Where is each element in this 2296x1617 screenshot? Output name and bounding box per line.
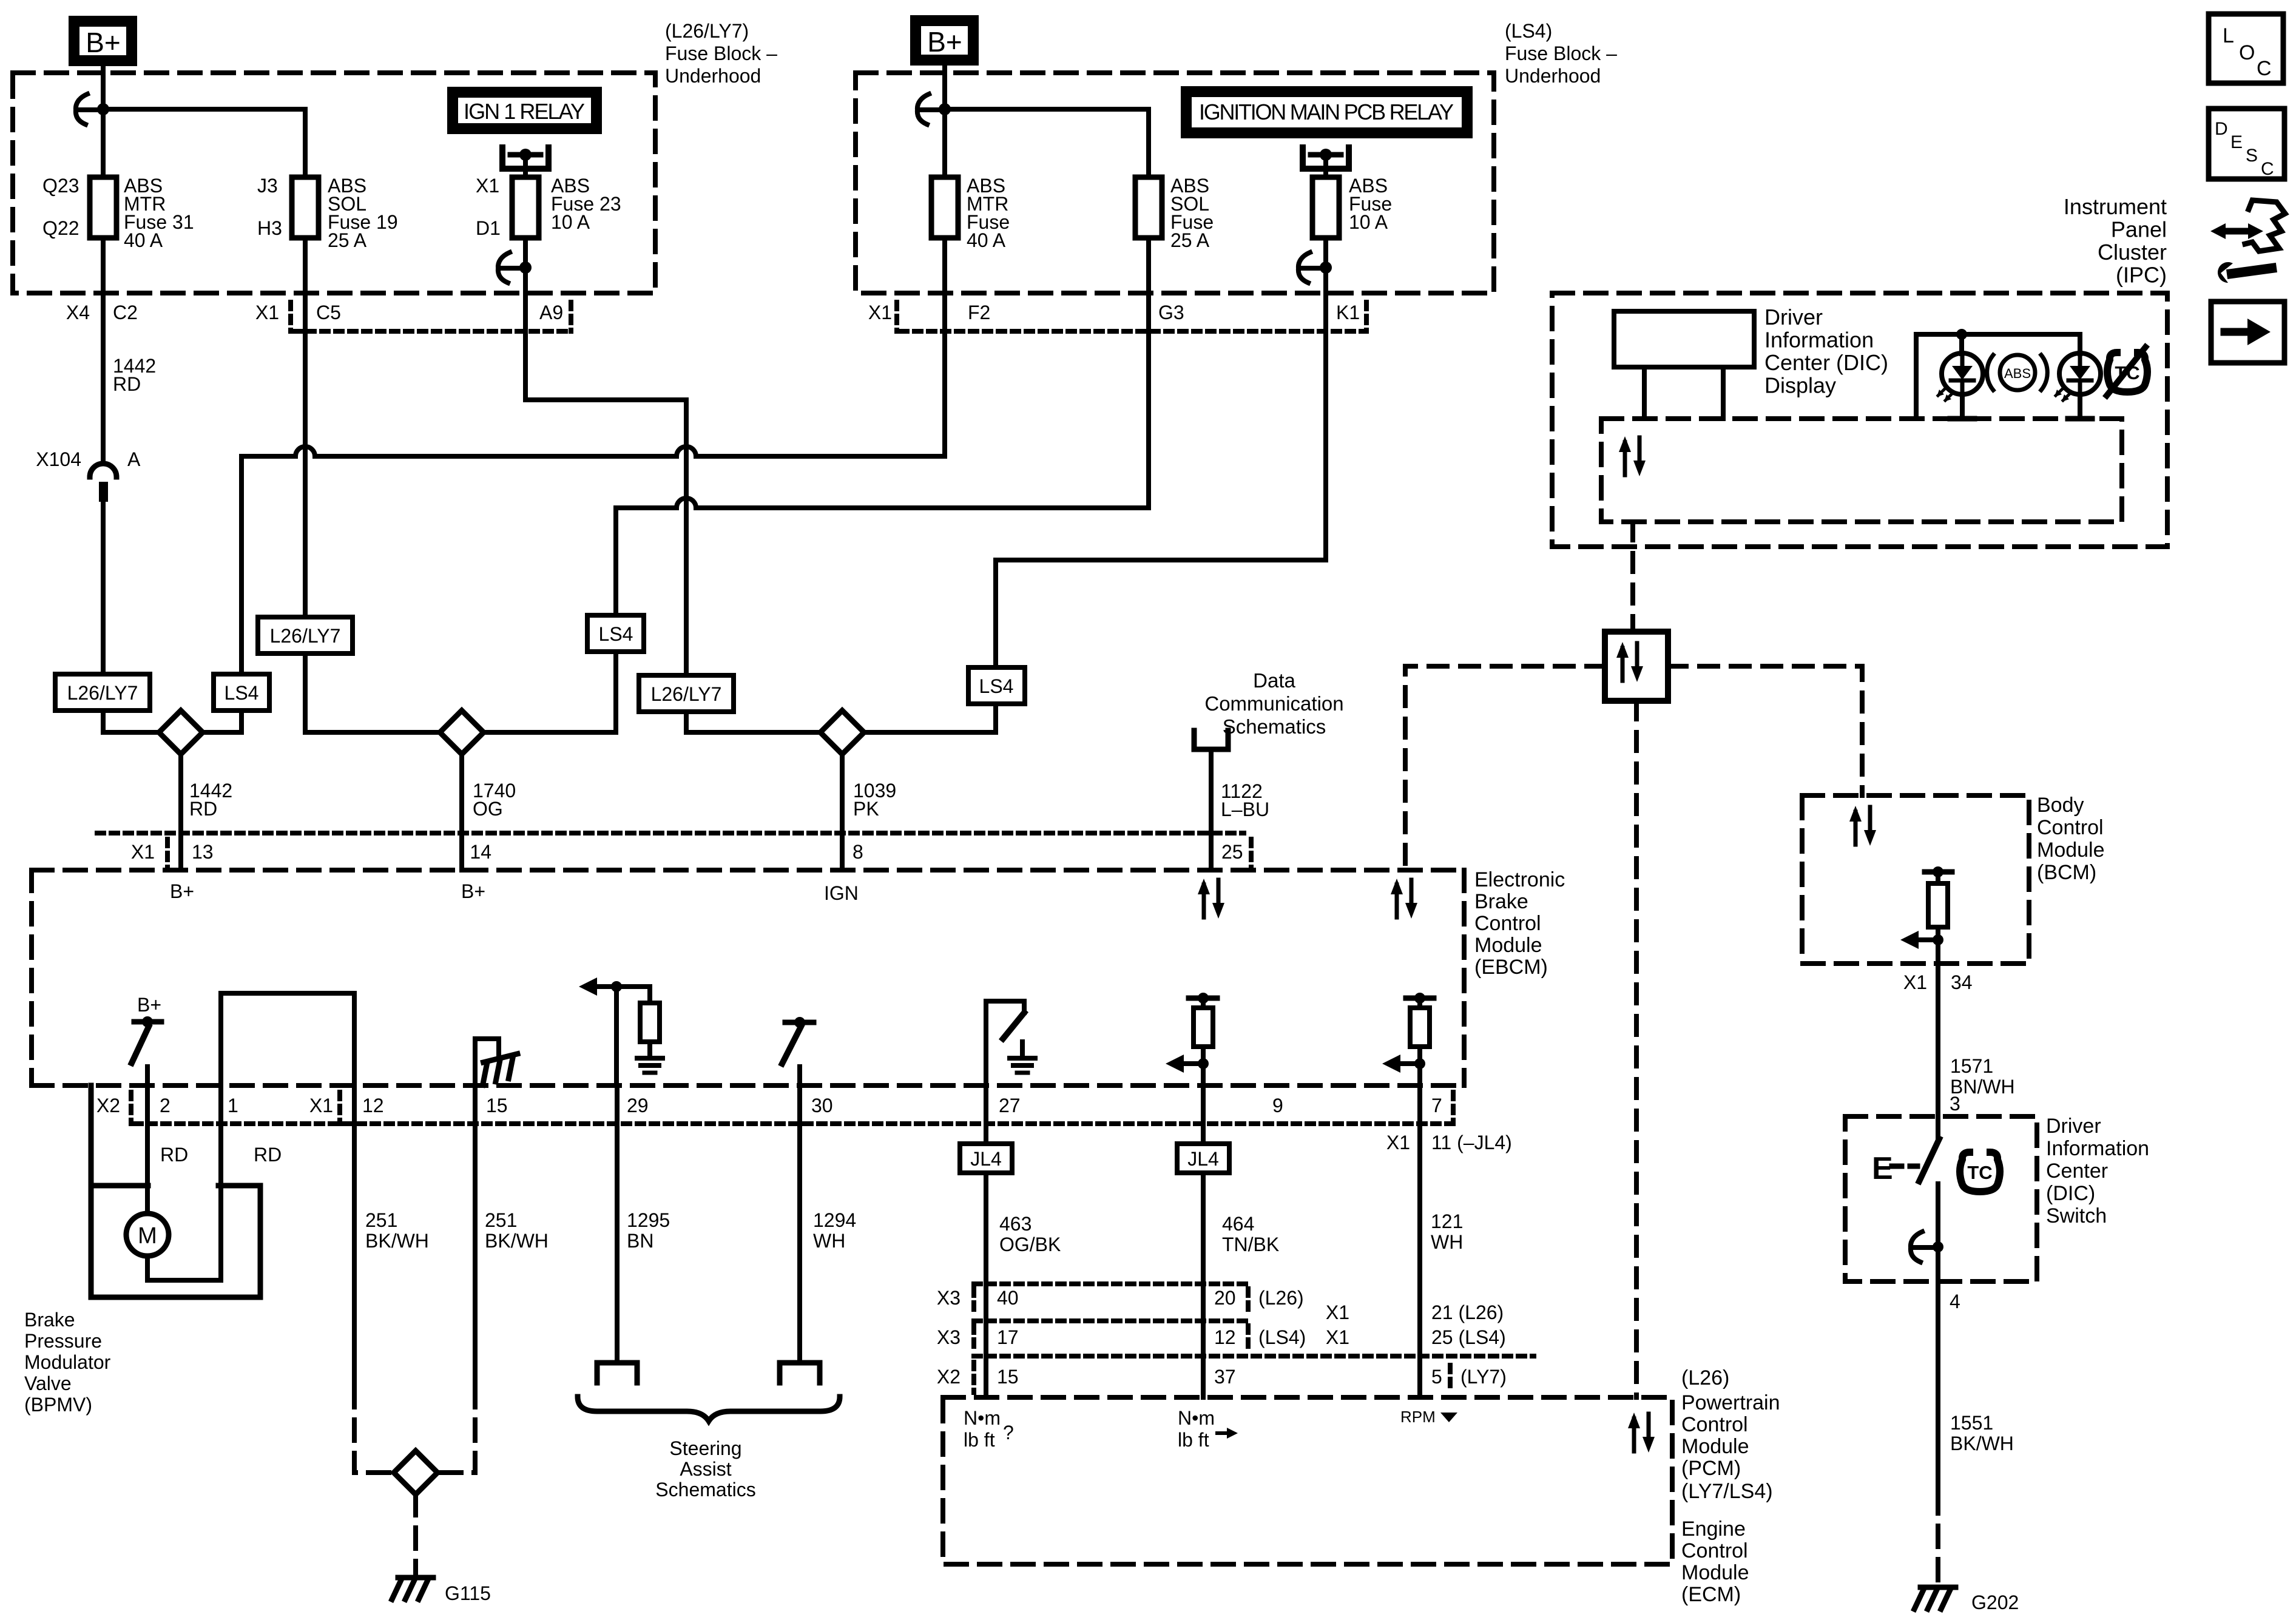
EBCM internal output pin 29 xyxy=(611,981,622,992)
svg-text:E: E xyxy=(2230,132,2243,152)
DIC inner dashed box xyxy=(1601,419,2122,522)
EBCM internal motor ground loop pin1 to pin12 xyxy=(221,993,354,1085)
wire down to LS4 tag 1 xyxy=(239,456,244,674)
svg-text:(BPMV): (BPMV) xyxy=(24,1394,92,1416)
EBCM bottom edge xyxy=(32,1083,1464,1088)
svg-text:Modulator: Modulator xyxy=(24,1351,111,1373)
indicator lamp bus xyxy=(1916,334,2080,419)
wire into splice diamond 2 right xyxy=(483,730,616,735)
svg-text:10 A: 10 A xyxy=(1349,211,1388,233)
svg-text:M: M xyxy=(138,1223,157,1249)
IGNITION MAIN PCB RELAY label box xyxy=(1181,86,1473,138)
relay IGNITION MAIN PCB contact output xyxy=(1303,147,1349,169)
fine dotted line above EBCM top pins xyxy=(97,831,1244,836)
svg-text:3: 3 xyxy=(1950,1093,1960,1115)
A9 ignition wire jog xyxy=(523,331,528,400)
svg-text:1: 1 xyxy=(228,1095,238,1116)
icon connector-view arrow with wrench xyxy=(2210,200,2285,283)
svg-text:Cluster: Cluster xyxy=(2098,240,2167,265)
BCM Body Control Module dashed box xyxy=(1802,795,2029,964)
B+ terminal box 1 xyxy=(69,16,137,66)
svg-text:15: 15 xyxy=(486,1095,508,1116)
svg-text:G202: G202 xyxy=(1971,1592,2019,1613)
svg-text:11 (–JL4): 11 (–JL4) xyxy=(1431,1132,1512,1153)
svg-text:Module: Module xyxy=(1474,934,1542,957)
svg-text:Instrument: Instrument xyxy=(2064,194,2167,219)
arrow signal out BCM xyxy=(1900,931,1938,949)
svg-text:1294: 1294 xyxy=(813,1209,856,1231)
svg-text:251: 251 xyxy=(365,1209,397,1231)
svg-text:PK: PK xyxy=(853,798,879,820)
svg-text:L26/LY7: L26/LY7 xyxy=(651,683,722,705)
svg-text:F2: F2 xyxy=(968,302,990,323)
svg-text:B+: B+ xyxy=(461,880,485,902)
fuse F2 ABS MTR Fuse 40A xyxy=(931,177,958,238)
svg-text:Body: Body xyxy=(2037,794,2084,817)
wire 1551 BK/WH xyxy=(1936,1281,1940,1493)
svg-text:Q23: Q23 xyxy=(42,175,79,197)
serial data arrows in BCM xyxy=(1849,806,1876,846)
tag L26/LY7 on wire 1442 xyxy=(55,674,150,711)
svg-text:X1: X1 xyxy=(309,1095,333,1116)
svg-text:X1: X1 xyxy=(476,175,499,197)
arrow signal out pin 29 xyxy=(579,977,616,996)
svg-text:B+: B+ xyxy=(927,26,962,58)
svg-text:34: 34 xyxy=(1951,971,1973,993)
svg-text:S: S xyxy=(2246,146,2258,166)
svg-text:(EBCM): (EBCM) xyxy=(1474,956,1548,979)
svg-text:JL4: JL4 xyxy=(970,1148,1002,1170)
DIC display leg 1 xyxy=(1642,367,1647,419)
wire below L26/LY7 tag 2 xyxy=(303,653,308,712)
tag LS4 on wire from F2 xyxy=(214,674,269,711)
svg-text:L: L xyxy=(2223,24,2234,47)
wire into splice diamond 2 left xyxy=(305,712,441,732)
svg-text:Powertrain: Powertrain xyxy=(1681,1391,1780,1414)
wire branch to ABS SOL fuse xyxy=(103,107,305,112)
svg-text:B+: B+ xyxy=(170,880,194,902)
fuse block LS4 underhood (dashed box) xyxy=(856,73,1494,293)
EBCM internal brake switch input pin 30 xyxy=(785,1020,814,1025)
svg-text:IGN: IGN xyxy=(824,882,859,904)
F2 wire down and across H1 xyxy=(942,240,947,456)
tag JL4 on wire 464 xyxy=(1177,1144,1229,1173)
relay IGN 1 contact output xyxy=(502,147,549,169)
wire down to LS4 tag 3 xyxy=(993,560,998,667)
svg-text:TN/BK: TN/BK xyxy=(1222,1234,1279,1255)
junction below fuse 23 xyxy=(519,262,532,274)
svg-text:29: 29 xyxy=(627,1095,649,1116)
svg-text:12: 12 xyxy=(362,1095,384,1116)
svg-text:Module: Module xyxy=(2037,839,2105,862)
svg-text:Data: Data xyxy=(1253,669,1295,692)
off-page terminator pin 30 xyxy=(780,1363,820,1383)
wire into splice diamond 3 right xyxy=(863,730,996,735)
switch blade pin 27 xyxy=(1003,1013,1024,1039)
off-page bracket data bus xyxy=(1194,731,1228,749)
svg-text:27: 27 xyxy=(999,1095,1021,1116)
EBCM internal ground at pin 15 xyxy=(475,1039,499,1085)
svg-text:X3: X3 xyxy=(937,1326,961,1348)
PCM/ECM dashed box xyxy=(943,1397,1672,1564)
svg-text:LS4: LS4 xyxy=(979,675,1014,697)
svg-text:9: 9 xyxy=(1272,1095,1283,1116)
wire down to ABS SOL fuse LS4 xyxy=(1146,109,1151,177)
svg-text:(LS4): (LS4) xyxy=(1505,20,1552,42)
wire LS4 B+ horizontal run xyxy=(241,454,295,459)
svg-text:Schematics: Schematics xyxy=(1223,715,1326,738)
TC off icon with slash xyxy=(2107,353,2147,392)
svg-text:4: 4 xyxy=(1950,1291,1960,1312)
splice clip at B+ junction xyxy=(76,94,100,124)
svg-text:15: 15 xyxy=(997,1366,1019,1388)
svg-text:X2: X2 xyxy=(937,1366,961,1388)
svg-text:Fuse Block –: Fuse Block – xyxy=(1505,42,1617,64)
wire 1442 RD to EBCM pin 13 xyxy=(178,754,183,870)
svg-text:1295: 1295 xyxy=(627,1209,670,1231)
svg-text:X1: X1 xyxy=(1386,1132,1410,1153)
svg-text:Switch: Switch xyxy=(2046,1204,2107,1227)
svg-text:40 A: 40 A xyxy=(124,229,163,251)
fuse K1 ABS Fuse 10A xyxy=(1312,177,1339,238)
svg-text:40: 40 xyxy=(997,1287,1019,1309)
svg-text:(LS4): (LS4) xyxy=(1258,1326,1306,1348)
svg-text:463: 463 xyxy=(999,1213,1032,1235)
wire B+ feed down to ABS MTR fuse xyxy=(101,66,106,177)
svg-text:A9: A9 xyxy=(539,302,563,323)
svg-text:L26/LY7: L26/LY7 xyxy=(270,625,341,647)
svg-text:Display: Display xyxy=(1764,373,1836,398)
serial data dashed wire to BCM xyxy=(1668,666,1862,795)
svg-text:X104: X104 xyxy=(36,448,81,470)
switch blade pin 30 xyxy=(782,1027,801,1064)
svg-text:RD: RD xyxy=(113,373,141,395)
tag L26/LY7 on wire from C5 xyxy=(258,617,353,653)
fuse G3 ABS SOL Fuse 25A xyxy=(1135,177,1162,238)
svg-text:Module: Module xyxy=(1681,1561,1749,1584)
svg-text:G115: G115 xyxy=(445,1582,491,1604)
connector dotted boundary left block xyxy=(294,329,571,334)
svg-text:1571: 1571 xyxy=(1950,1055,1993,1077)
svg-text:OG/BK: OG/BK xyxy=(999,1234,1061,1255)
small arrow right xyxy=(1217,1431,1232,1435)
BPMV Brake Pressure Modulator Valve outline xyxy=(91,1085,260,1297)
svg-text:Underhood: Underhood xyxy=(665,65,761,87)
svg-text:G3: G3 xyxy=(1158,302,1184,323)
junction B+ branch xyxy=(97,103,109,115)
svg-text:(LY7): (LY7) xyxy=(1460,1366,1507,1388)
TC off indicator LED xyxy=(2055,353,2101,402)
wire 1122 L-BU to EBCM pin 25 xyxy=(1209,749,1214,870)
DIC display box xyxy=(1614,311,1754,367)
wire 463 OG/BK xyxy=(984,1173,988,1397)
svg-text:C: C xyxy=(2257,57,2272,80)
off-page terminator pin 29 xyxy=(597,1363,637,1383)
wire down to LS4 tag 2 xyxy=(613,508,618,615)
svg-text:17: 17 xyxy=(997,1326,1019,1348)
IGN 1 RELAY label box xyxy=(447,87,602,134)
svg-text:Q22: Q22 xyxy=(42,217,79,239)
svg-text:Control: Control xyxy=(1681,1413,1748,1436)
svg-text:BK/WH: BK/WH xyxy=(485,1230,549,1252)
arrow signal out pin 9 xyxy=(1166,1055,1203,1073)
serial data arrows at pin 25 xyxy=(1198,879,1224,919)
svg-text:X2: X2 xyxy=(96,1095,120,1116)
svg-text:K1: K1 xyxy=(1336,302,1360,323)
svg-text:25 (LS4): 25 (LS4) xyxy=(1431,1326,1506,1348)
svg-text:Center (DIC): Center (DIC) xyxy=(1764,350,1888,375)
svg-text:25 A: 25 A xyxy=(1170,229,1210,251)
wire 1039 PK to EBCM pin 8 xyxy=(840,754,845,870)
svg-text:1551: 1551 xyxy=(1950,1412,1993,1434)
svg-text:L26/LY7: L26/LY7 xyxy=(67,682,138,704)
icon LOC box xyxy=(2209,14,2283,83)
DIC switch dashed box xyxy=(1845,1116,2037,1281)
serial data arrows in IPC xyxy=(1619,436,1646,476)
svg-text:(BCM): (BCM) xyxy=(2037,861,2096,884)
svg-text:D1: D1 xyxy=(476,217,501,239)
dashed wire to ground G115 xyxy=(413,1494,418,1575)
svg-text:X1: X1 xyxy=(1326,1326,1349,1348)
wire fuse 23 to connector A9 xyxy=(523,238,528,331)
icon forward arrow box xyxy=(2211,302,2284,363)
svg-text:N•m: N•m xyxy=(1178,1407,1215,1429)
svg-text:IGN 1 RELAY: IGN 1 RELAY xyxy=(464,99,585,124)
junction below ABS fuse 10A xyxy=(1320,262,1332,274)
EBCM right edge xyxy=(1462,870,1467,1085)
svg-text:Underhood: Underhood xyxy=(1505,65,1601,87)
svg-text:Brake: Brake xyxy=(1474,890,1528,913)
tag L26/LY7 on ignition wire xyxy=(639,675,734,712)
connector row X2 15/37/5 (LY7) xyxy=(971,1362,976,1393)
wire from pin 9 xyxy=(1201,1085,1206,1144)
splice diamond S2 solenoid feed xyxy=(440,711,484,754)
wire 1571 BN/WH xyxy=(1936,964,1940,1118)
wire 1294 WH from pin 30 xyxy=(797,1085,802,1360)
svg-text:lb ft: lb ft xyxy=(964,1429,995,1451)
svg-text:40 A: 40 A xyxy=(967,229,1006,251)
svg-text:Information: Information xyxy=(2046,1137,2149,1160)
svg-text:Schematics: Schematics xyxy=(655,1479,755,1501)
splice clip at B+ junction LS4 xyxy=(917,94,941,124)
wire 121 WH xyxy=(1417,1085,1422,1397)
ABS warning indicator LED xyxy=(1937,353,1983,402)
tag LS4 on wire from K1 xyxy=(968,667,1025,704)
svg-text:25 A: 25 A xyxy=(328,229,367,251)
svg-text:25: 25 xyxy=(1221,841,1243,863)
svg-text:Control: Control xyxy=(1681,1539,1748,1562)
splice diamond S3 ignition feed xyxy=(820,711,864,754)
svg-text:Engine: Engine xyxy=(1681,1517,1746,1541)
svg-text:2: 2 xyxy=(160,1095,171,1116)
splice diamond ground xyxy=(394,1451,437,1494)
icon DESC box xyxy=(2209,109,2284,179)
svg-text:21 (L26): 21 (L26) xyxy=(1431,1301,1504,1323)
wire down to ABS SOL fuse xyxy=(303,109,308,177)
wire into splice diamond 1 left xyxy=(103,730,160,735)
svg-text:Information: Information xyxy=(1764,328,1874,353)
ground G115 xyxy=(392,1578,433,1599)
connector row X3 17/12 (LS4) dotted box xyxy=(974,1354,1534,1359)
wire 1740 OG to EBCM pin 14 xyxy=(459,754,464,870)
EBCM top edge xyxy=(32,868,1466,873)
svg-text:Assist: Assist xyxy=(680,1458,731,1480)
svg-text:N•m: N•m xyxy=(964,1407,1001,1429)
serial data dashed wire IPC to splice square xyxy=(1630,522,1635,632)
svg-text:WH: WH xyxy=(813,1230,845,1252)
resistor pull-up in BCM xyxy=(1928,883,1948,927)
wire relay to fuse 23 xyxy=(523,155,528,177)
arrow signal out pin 7 xyxy=(1382,1055,1420,1073)
svg-text:(L26/LY7): (L26/LY7) xyxy=(665,20,749,42)
wire relay to ABS fuse 10A xyxy=(1323,155,1328,177)
svg-text:8: 8 xyxy=(853,841,863,863)
splice diamond S1 battery feed xyxy=(159,711,203,754)
svg-text:LS4: LS4 xyxy=(225,682,259,704)
svg-text:Driver: Driver xyxy=(1764,305,1823,329)
svg-text:X1: X1 xyxy=(255,302,279,323)
switch blade pump motor relay xyxy=(132,1027,149,1063)
svg-text:20: 20 xyxy=(1214,1287,1236,1309)
svg-text:LS4: LS4 xyxy=(599,623,633,645)
svg-text:J3: J3 xyxy=(257,175,278,197)
dashed actuator link xyxy=(1892,1164,1917,1169)
wire into splice diamond 1 right xyxy=(202,730,241,735)
B+ terminal box 2 xyxy=(910,15,979,66)
BCM internal voltage supply xyxy=(1925,869,1952,875)
svg-text:IGNITION MAIN PCB RELAY: IGNITION MAIN PCB RELAY xyxy=(1199,100,1454,124)
svg-text:B+: B+ xyxy=(86,27,121,58)
BPMV pump motor M xyxy=(145,1085,150,1214)
wire into splice diamond 3 left xyxy=(686,730,821,735)
svg-text:lb ft: lb ft xyxy=(1178,1429,1209,1451)
connector dotted boundary right block xyxy=(900,329,1366,334)
svg-text:464: 464 xyxy=(1222,1213,1254,1235)
svg-text:RD: RD xyxy=(254,1144,282,1166)
svg-text:RPM: RPM xyxy=(1400,1408,1436,1426)
EBCM left edge xyxy=(29,870,34,1085)
svg-text:ABS: ABS xyxy=(2004,366,2031,381)
svg-text:121: 121 xyxy=(1431,1210,1463,1232)
dashed continuation of 251 BK/WH pin 12 xyxy=(354,1386,394,1473)
svg-text:RD: RD xyxy=(189,798,217,820)
svg-text:C2: C2 xyxy=(113,302,138,323)
wire B+ feed down to ABS MTR fuse LS4 xyxy=(942,66,947,177)
brace steering assist schematics xyxy=(578,1397,840,1421)
wire 1740 OG branch C5 down xyxy=(303,240,308,617)
serial data dashed wire to PCM xyxy=(1634,701,1639,1397)
wire 464 TN/BK xyxy=(1201,1173,1206,1397)
svg-text:Communication: Communication xyxy=(1204,692,1343,715)
svg-text:Pressure: Pressure xyxy=(24,1330,102,1352)
svg-text:12: 12 xyxy=(1214,1326,1236,1348)
svg-text:D: D xyxy=(2215,119,2228,139)
svg-text:(ECM): (ECM) xyxy=(1681,1583,1741,1606)
svg-text:Control: Control xyxy=(1474,912,1541,935)
svg-text:14: 14 xyxy=(470,841,491,863)
svg-text:X1: X1 xyxy=(1903,971,1927,993)
svg-text:C: C xyxy=(2261,159,2274,179)
svg-text:251: 251 xyxy=(485,1209,517,1231)
wire 251 BK/WH from pin 12 xyxy=(352,1085,357,1386)
ground G202 xyxy=(1914,1587,1956,1609)
fuse X1/D1 ABS Fuse 23 10A xyxy=(512,177,539,238)
svg-text:Fuse Block –: Fuse Block – xyxy=(665,42,777,64)
svg-text:C5: C5 xyxy=(316,302,341,323)
EBCM internal sensor supply pin 7 xyxy=(1406,996,1434,1001)
svg-text:30: 30 xyxy=(811,1095,833,1116)
svg-text:BN: BN xyxy=(627,1230,653,1252)
svg-text:B+: B+ xyxy=(137,994,161,1016)
fuse J3/H3 ABS SOL Fuse 19 25A xyxy=(292,177,319,238)
svg-text:(DIC): (DIC) xyxy=(2046,1182,2095,1205)
svg-text:BK/WH: BK/WH xyxy=(1950,1433,2014,1454)
svg-text:13: 13 xyxy=(192,841,214,863)
splice clip below ABS fuse 10A xyxy=(1298,252,1322,283)
svg-text:A: A xyxy=(127,448,141,470)
dashed continuation of 251 BK/WH pin 15 xyxy=(437,1386,475,1473)
svg-text:X1: X1 xyxy=(868,302,892,323)
junction B+ branch LS4 xyxy=(939,103,951,115)
svg-text:WH: WH xyxy=(1431,1231,1463,1253)
fuse Q23/Q22 ABS MTR Fuse 31 40A xyxy=(90,177,116,238)
svg-text:37: 37 xyxy=(1214,1366,1236,1388)
svg-text:Control: Control xyxy=(2037,816,2104,839)
inline connector X104 pin A xyxy=(90,464,116,477)
serial data dashed wire to EBCM pin xyxy=(1405,666,1605,870)
svg-text:(IPC): (IPC) xyxy=(2116,263,2167,288)
wire 1295 BN from pin 29 xyxy=(615,1085,620,1360)
svg-text:(LY7/LS4): (LY7/LS4) xyxy=(1681,1480,1773,1503)
fine dotted line below EBCM bottom pins xyxy=(135,1121,1450,1126)
G3 wire down and across H2 xyxy=(1146,240,1151,508)
svg-text:Driver: Driver xyxy=(2046,1115,2101,1138)
svg-text:H3: H3 xyxy=(257,217,282,239)
wire ABS fuse to connector K1 xyxy=(1323,238,1328,331)
wire from pin 27 xyxy=(984,1085,988,1144)
svg-text:7: 7 xyxy=(1431,1095,1442,1116)
slash through TC icon xyxy=(2107,347,2146,396)
switch blade DIC xyxy=(1919,1139,1939,1181)
wire 251 BK/WH from pin 15 xyxy=(473,1085,478,1386)
ABS icon xyxy=(1987,355,1993,390)
EBCM internal sensor supply pin 9 xyxy=(1189,996,1217,1001)
svg-text:O: O xyxy=(2239,41,2255,64)
svg-text:Electronic: Electronic xyxy=(1474,868,1565,891)
svg-text:X1: X1 xyxy=(1326,1301,1349,1323)
svg-text:Steering: Steering xyxy=(669,1437,741,1459)
svg-text:(L26): (L26) xyxy=(1258,1287,1304,1309)
serial data arrows at class-2 entry xyxy=(1391,879,1417,919)
svg-text:Valve: Valve xyxy=(24,1372,72,1394)
splice clip in DIC switch xyxy=(1911,1232,1934,1262)
EBCM internal switched ground pin 27 xyxy=(986,1001,1024,1085)
wire branch to ABS SOL fuse LS4 xyxy=(945,107,1149,112)
dashed wire to ground G202 xyxy=(1936,1493,1940,1585)
K1 wire down and across xyxy=(1323,331,1328,560)
serial data arrows in splice square xyxy=(1616,642,1643,682)
wire 1442 RD to L26/LY7 tag xyxy=(101,501,106,674)
IPC Instrument Panel Cluster dashed box xyxy=(1552,293,2167,547)
svg-text:L–BU: L–BU xyxy=(1221,798,1269,820)
connector row X3 40/20 (L26) dotted box xyxy=(974,1281,1246,1286)
svg-text:X1: X1 xyxy=(131,841,155,863)
svg-text:Panel: Panel xyxy=(2111,217,2167,242)
svg-text:5: 5 xyxy=(1431,1366,1442,1388)
tag LS4 on wire from G3 xyxy=(587,615,644,652)
svg-text:10 A: 10 A xyxy=(551,211,590,233)
splice clip below fuse 23 xyxy=(498,252,522,283)
